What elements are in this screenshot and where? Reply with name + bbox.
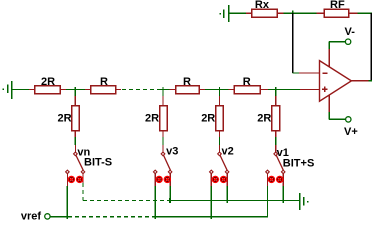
- vref bus junction ticks: [155, 214, 211, 219]
- terminal vref: [45, 214, 50, 219]
- wire node E down (black): [292, 13, 294, 73]
- svg-text:BIT+S: BIT+S: [283, 158, 314, 170]
- wire battery to Rx: [229, 12, 246, 14]
- node A junction: [74, 87, 76, 92]
- svg-text:Rx: Rx: [255, 0, 270, 11]
- wire resistor col1 to switch: [74, 131, 76, 146]
- switch SW4 (v1 BIT+S): [266, 145, 285, 186]
- op-amp + input pin: [300, 89, 320, 91]
- resistor 2R (vertical col4): [272, 106, 280, 131]
- node E junction: [292, 11, 294, 16]
- vref bus wire dashed: [68, 216, 155, 218]
- wire SW4 left pin down to vref bus corner (crosses gnd bus): [267, 186, 269, 217]
- wire to node C: [205, 89, 228, 91]
- svg-text:V+: V+: [344, 126, 358, 138]
- wire feedback right vertical (black): [370, 13, 372, 81]
- branch col2: wire node B down: [162, 90, 164, 106]
- switch SW1 contact dots: [68, 176, 83, 183]
- svg-text:2R: 2R: [201, 113, 215, 125]
- svg-text:vref: vref: [21, 210, 42, 222]
- wire SW1 right pin dashed to gnd bus: [83, 183, 170, 201]
- gnd bus junction ticks: [170, 198, 283, 203]
- svg-text:v3: v3: [166, 146, 178, 158]
- wire SW2 left pin to vref bus: [154, 186, 156, 219]
- terminal V+: [346, 117, 351, 122]
- svg-text:R: R: [183, 76, 191, 88]
- svg-text:RF: RF: [330, 0, 345, 11]
- node B junction: [161, 87, 169, 92]
- switch SW1 (vn BIT-S): [66, 145, 85, 186]
- op-amp output wire: [351, 80, 372, 82]
- resistor 2R (horizontal): [29, 86, 66, 94]
- wire SW3 left pin to vref bus (crosses gnd bus): [210, 186, 212, 219]
- battery V-right (ground reference): [300, 193, 309, 210]
- switch SW4 contact dots: [268, 176, 283, 183]
- node D junction: [275, 87, 277, 92]
- wire Rx to node E: [283, 12, 316, 14]
- resistor R (R1 horizontal): [85, 86, 121, 94]
- wire SW1 left pin to vref bus: [66, 186, 68, 219]
- wire node C to node D to op-amp: [268, 89, 300, 91]
- svg-text:V-: V-: [345, 26, 356, 38]
- svg-text:2R: 2R: [58, 113, 72, 125]
- battery V-top: [219, 5, 228, 22]
- resistor 2R (vertical col3): [216, 106, 224, 131]
- switch SW3 (v2): [210, 145, 229, 186]
- vref bus wire solid left: [50, 216, 67, 218]
- op-amp V- supply pin: [329, 42, 345, 67]
- resistor R (R3 horizontal): [228, 86, 268, 94]
- svg-text:2R: 2R: [145, 113, 159, 125]
- svg-text:R: R: [100, 76, 108, 88]
- branch col1: wire node A down: [74, 90, 76, 106]
- node C junction: [219, 87, 221, 92]
- wire SW3 right pin to gnd bus: [226, 186, 228, 203]
- dashed wire R1 to node B: [122, 89, 161, 91]
- resistor 2R (vertical col2): [160, 106, 168, 131]
- op-amp U1: [320, 61, 352, 102]
- svg-text:2R: 2R: [41, 76, 55, 88]
- battery V-left (main rail reference): [3, 81, 12, 99]
- resistor Rx: [246, 9, 283, 17]
- wire RF to right corner: [358, 12, 373, 14]
- switch SW2 contact dots: [156, 176, 171, 183]
- wire battery to 2R: [13, 89, 30, 91]
- wire to node A: [66, 89, 85, 91]
- wire resistor col2 to switch: [162, 131, 164, 146]
- wire resistor col3 to switch: [219, 131, 221, 146]
- vref bus wire solid right: [155, 216, 267, 218]
- resistor 2R (vertical col1): [72, 106, 80, 131]
- svg-text:2R: 2R: [257, 113, 271, 125]
- switch SW3 contact dots: [212, 176, 227, 183]
- terminal V-: [345, 39, 350, 44]
- branch col4: wire node D down: [275, 90, 277, 106]
- branch col3: wire node C down: [219, 90, 221, 106]
- wire to op-amp - input: [293, 72, 320, 74]
- switch SW2 (v3): [153, 145, 171, 186]
- resistor R (R2 horizontal): [169, 86, 205, 94]
- gnd bus wire (solid part): [170, 200, 300, 202]
- svg-text:BIT-S: BIT-S: [84, 157, 112, 169]
- wire SW2 right pin to gnd bus: [169, 186, 171, 203]
- svg-text:v2: v2: [222, 146, 234, 158]
- wire resistor col4 to switch: [275, 131, 277, 146]
- op-amp V+ supply pin: [329, 95, 345, 120]
- wire SW4 right pin to gnd bus: [282, 186, 284, 203]
- svg-text:R: R: [243, 76, 251, 88]
- resistor RF: [316, 9, 357, 17]
